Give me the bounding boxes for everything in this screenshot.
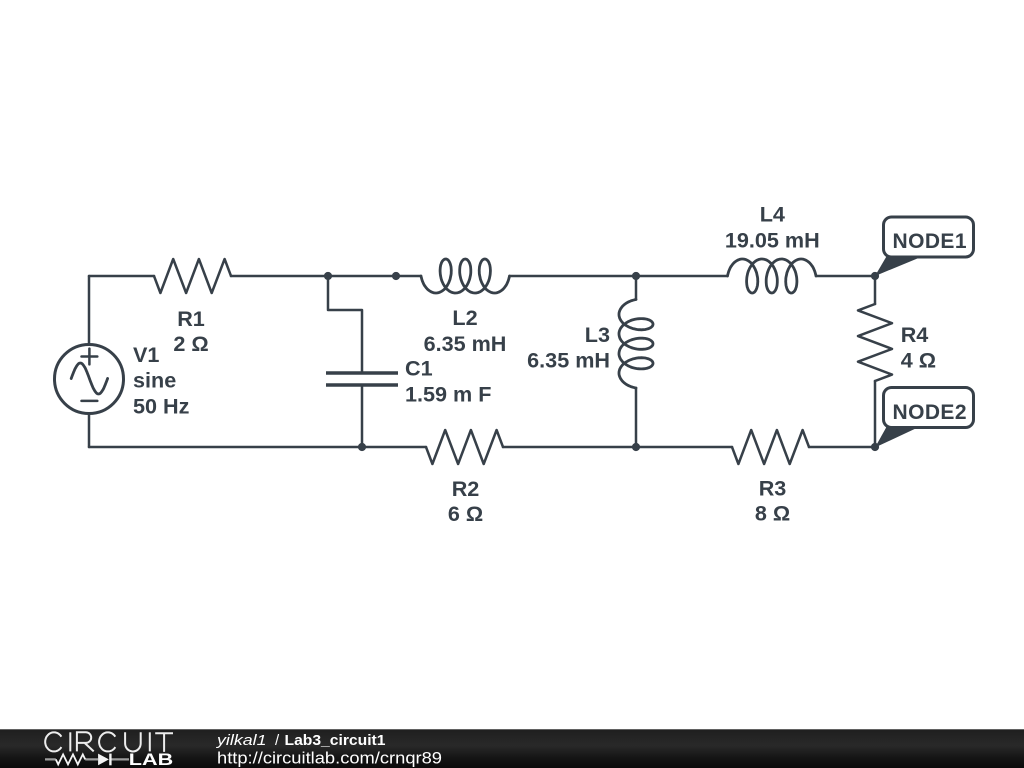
svg-text:L2: L2	[452, 305, 477, 330]
svg-text:R1: R1	[177, 306, 205, 331]
label L4	[725, 201, 820, 252]
svg-text:R4: R4	[901, 322, 929, 347]
junction L3 bottom	[632, 443, 640, 451]
junction C1 top	[324, 272, 332, 280]
svg-text:yilkal1: yilkal1	[216, 732, 267, 749]
wire top rail left	[89, 275, 154, 278]
resistor R4	[858, 304, 892, 381]
svg-text:1.59 m F: 1.59 m F	[405, 382, 491, 407]
wire bottom rail left	[89, 446, 426, 449]
svg-text:Lab3_circuit1: Lab3_circuit1	[285, 732, 386, 749]
label C1	[405, 356, 491, 407]
wire R4 top lead	[874, 276, 877, 304]
svg-text:L4: L4	[760, 201, 785, 226]
resistor R1	[154, 259, 231, 293]
junction L3 top	[632, 272, 640, 280]
svg-text:2 Ω: 2 Ω	[173, 331, 208, 356]
svg-text:19.05 mH: 19.05 mH	[725, 228, 820, 253]
label L3	[527, 322, 610, 373]
svg-text:R2: R2	[452, 476, 480, 501]
node NODE1 junction	[871, 272, 879, 280]
wire source to bottom rail	[88, 414, 91, 448]
svg-text:6 Ω: 6 Ω	[448, 501, 483, 526]
wire top rail L2 to L4	[510, 275, 728, 278]
capacitor C1	[326, 371, 398, 375]
logo resistor squiggle	[45, 758, 129, 760]
resistor R3	[732, 430, 809, 464]
inductor L3	[619, 300, 653, 389]
node NODE2 flag	[875, 388, 974, 448]
svg-text:R3: R3	[759, 476, 787, 501]
node NODE2 junction	[871, 443, 879, 451]
svg-text:6.35 mH: 6.35 mH	[527, 348, 610, 373]
wire C1 branch jog	[328, 276, 362, 373]
wire bottom rail R3 to NODE2	[809, 446, 875, 449]
svg-text:V1: V1	[133, 342, 159, 367]
voltage source V1	[55, 345, 124, 414]
footer title text	[216, 732, 442, 768]
wire bottom rail R2 to R3	[503, 446, 732, 449]
wire C1 to bottom rail	[361, 385, 364, 447]
svg-text:6.35 mH: 6.35 mH	[424, 331, 507, 356]
inductor L4	[728, 259, 817, 293]
label L2	[424, 305, 507, 356]
wire L3 bottom lead	[635, 388, 638, 447]
svg-text:50 Hz: 50 Hz	[133, 394, 190, 419]
label R1	[173, 306, 208, 356]
wire top rail L4 to NODE1	[816, 275, 875, 278]
svg-text:http://circuitlab.com/crnqr89: http://circuitlab.com/crnqr89	[217, 749, 442, 768]
junction C1 bottom	[358, 443, 366, 451]
wire L3 top lead	[635, 276, 638, 300]
svg-text:NODE1: NODE1	[893, 230, 967, 253]
wire top rail R1 to L2	[231, 275, 421, 278]
svg-text:sine: sine	[133, 368, 176, 393]
svg-text:C1: C1	[405, 356, 433, 381]
label V1	[133, 342, 190, 419]
resistor R2	[426, 430, 503, 464]
svg-text:4 Ω: 4 Ω	[901, 348, 936, 373]
svg-text:L3: L3	[585, 322, 610, 347]
label R3	[755, 476, 790, 526]
inductor L2	[421, 259, 510, 293]
svg-text:8 Ω: 8 Ω	[755, 501, 790, 526]
svg-text:LAB: LAB	[129, 751, 174, 768]
label R4	[901, 322, 936, 373]
label R2	[448, 476, 483, 526]
logo diode	[98, 754, 109, 766]
svg-text:NODE2: NODE2	[893, 401, 967, 424]
junction L2 left	[392, 272, 400, 280]
wire R4 bottom lead	[874, 381, 877, 447]
node NODE1 flag	[875, 217, 974, 276]
logo CIRCUIT letters	[45, 732, 173, 752]
wire left drop to source	[88, 276, 91, 345]
